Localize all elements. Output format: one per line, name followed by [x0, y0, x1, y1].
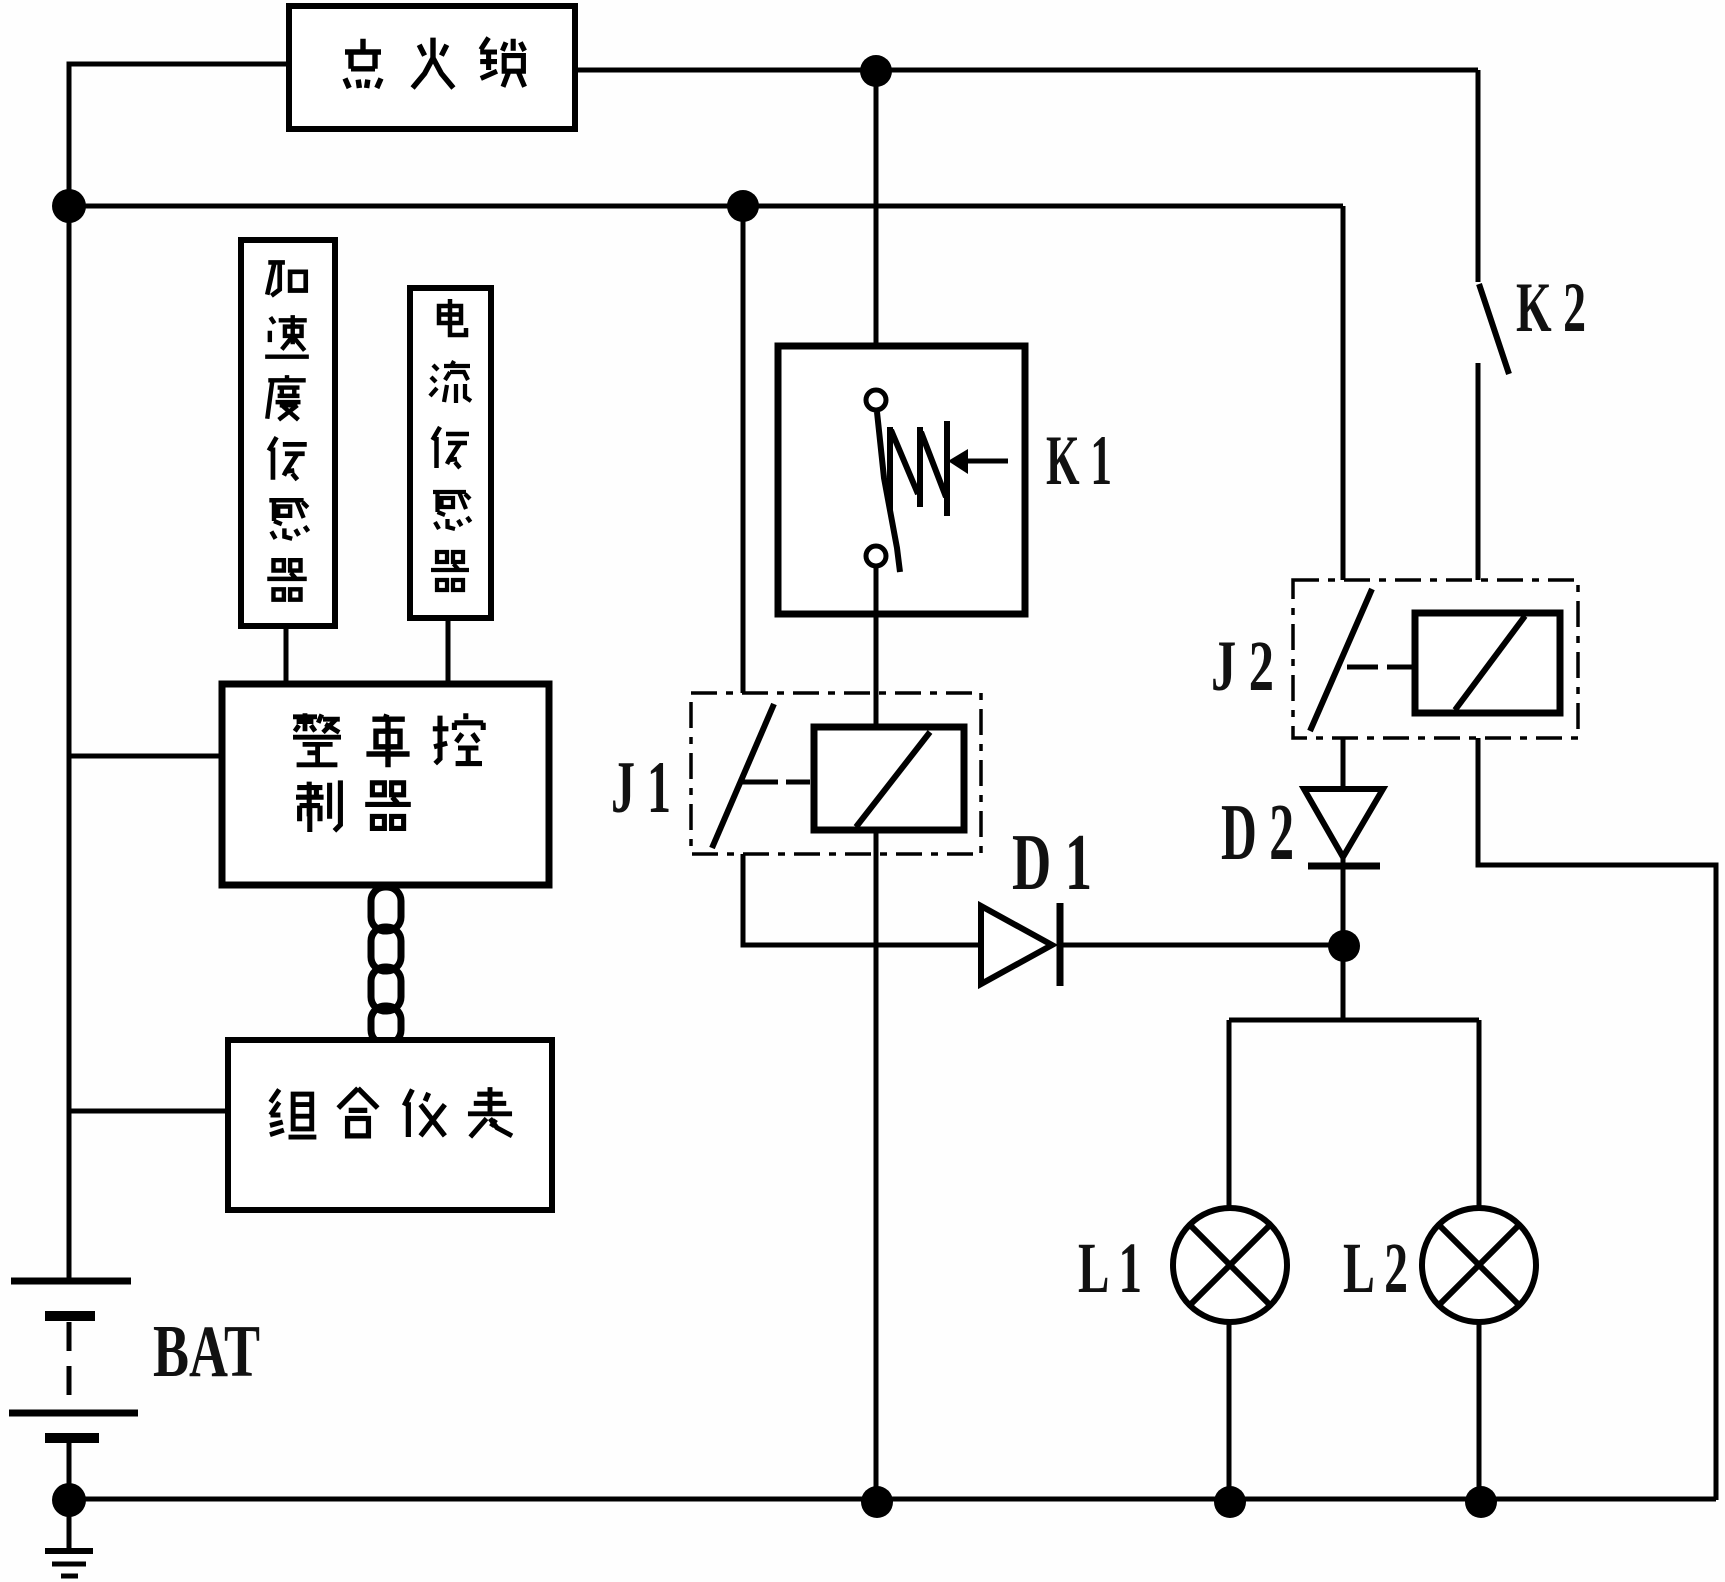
relay J2 contact blade — [1310, 589, 1372, 731]
junction node x=743 y=206 — [727, 190, 759, 222]
wire: J1 coil bottom main vertical to bottom rail — [874, 830, 879, 1500]
box: vehicle controller 整车控制器 — [222, 684, 549, 885]
relay J2 mechanical link — [1347, 665, 1412, 670]
switch K1 upper terminal — [866, 390, 886, 410]
connector chain between controller and cluster — [371, 887, 401, 1044]
svg-text:J 1: J 1 — [611, 747, 671, 829]
switch K1 lower terminal — [866, 546, 886, 566]
wire: L1 upper lead — [1227, 1020, 1232, 1209]
wire: bottom ground rail — [69, 1497, 1716, 1502]
label 点火锁 — [345, 38, 525, 88]
junction node bottom left — [52, 1483, 86, 1517]
relay J1 coil — [814, 727, 964, 830]
wire: L2 upper lead — [1477, 1020, 1482, 1209]
switch K1 spring — [890, 421, 947, 516]
box: ignition lock 点火锁 — [289, 6, 575, 129]
svg-text:K 1: K 1 — [1046, 422, 1112, 500]
svg-text:D 1: D 1 — [1012, 817, 1092, 907]
wire: J1 left leg from rail node — [741, 206, 746, 693]
box: K1 impact switch enclosure — [778, 346, 1025, 614]
wire: L1 lower lead — [1227, 1321, 1232, 1500]
wire: J2 coil right leg to right rail — [1478, 738, 1716, 1500]
relay J2 outline (dash-dot) — [1293, 580, 1578, 738]
wire: left rail to controller — [69, 754, 222, 759]
svg-text:L 2: L 2 — [1343, 1228, 1408, 1308]
wire: second supply rail y=206 — [69, 204, 1343, 209]
junction node bottom L1 — [1214, 1486, 1246, 1518]
wire: current sensor to controller — [446, 618, 451, 684]
svg-text:K 2: K 2 — [1516, 269, 1586, 347]
box: instrument cluster 组合仪表 — [228, 1040, 552, 1210]
svg-text:BAT: BAT — [153, 1311, 260, 1393]
wire: K1 feed from top node down — [874, 71, 879, 392]
switch K1 blade — [877, 412, 900, 572]
relay J1 outline (dash-dot) — [691, 693, 981, 854]
ground symbol — [67, 1500, 72, 1549]
svg-text:L 1: L 1 — [1078, 1228, 1142, 1308]
svg-text:D 2: D 2 — [1221, 787, 1294, 877]
wire: D2 to node A and lamp branch — [1341, 866, 1346, 1022]
relay J1 contact blade — [712, 704, 774, 848]
diode D1 — [981, 906, 1052, 984]
wire: lamp branch top — [1229, 1018, 1479, 1023]
relay J1 mechanical link — [742, 780, 810, 785]
box: acceleration sensor 加速度传感器 — [241, 240, 335, 626]
wire: ignition lock left to left rail — [69, 64, 289, 1281]
battery BAT plates — [11, 1278, 131, 1285]
svg-text:J 2: J 2 — [1211, 626, 1274, 706]
wire: D1 to node A — [1060, 943, 1343, 948]
label 整车控制器 — [293, 713, 483, 832]
wire: accel sensor to controller — [284, 626, 289, 684]
junction node bottom x=876 — [861, 1486, 893, 1518]
wire: top supply line from ignition lock to K2 — [575, 68, 1478, 73]
wire: J1 contact lower leg to D1 — [743, 854, 981, 945]
wire: K2 upper lead — [1476, 70, 1481, 282]
wire: J2 left feed from rail — [1341, 206, 1346, 580]
relay J2 coil — [1415, 613, 1560, 713]
wire: J2 contact leg to D2 — [1341, 738, 1346, 866]
junction node A — [1328, 930, 1360, 962]
diode D2 — [1304, 789, 1383, 857]
junction node bottom L2 — [1465, 1486, 1497, 1518]
switch K1 actuation arrow — [960, 459, 1008, 464]
label 加速度传感器 vertical — [265, 262, 309, 599]
wire: battery negative to bottom rail — [67, 1443, 72, 1500]
label 组合仪表 — [270, 1087, 512, 1137]
wire: L2 lower lead — [1477, 1321, 1482, 1500]
wire: left rail to instrument cluster — [69, 1109, 228, 1114]
junction node left rail y=206 — [52, 189, 86, 223]
label 电流传感器 vertical — [430, 299, 471, 590]
wire: K2 lower lead down to relay J2 — [1476, 363, 1481, 580]
switch K2 blade — [1479, 284, 1509, 374]
box: current sensor 电流传感器 — [410, 288, 491, 618]
junction node at top line x=876 — [860, 55, 892, 87]
wire: K1 lower lead down to J1 coil — [874, 566, 879, 727]
lamp L1 — [1173, 1208, 1287, 1322]
lamp L2 — [1422, 1208, 1536, 1322]
